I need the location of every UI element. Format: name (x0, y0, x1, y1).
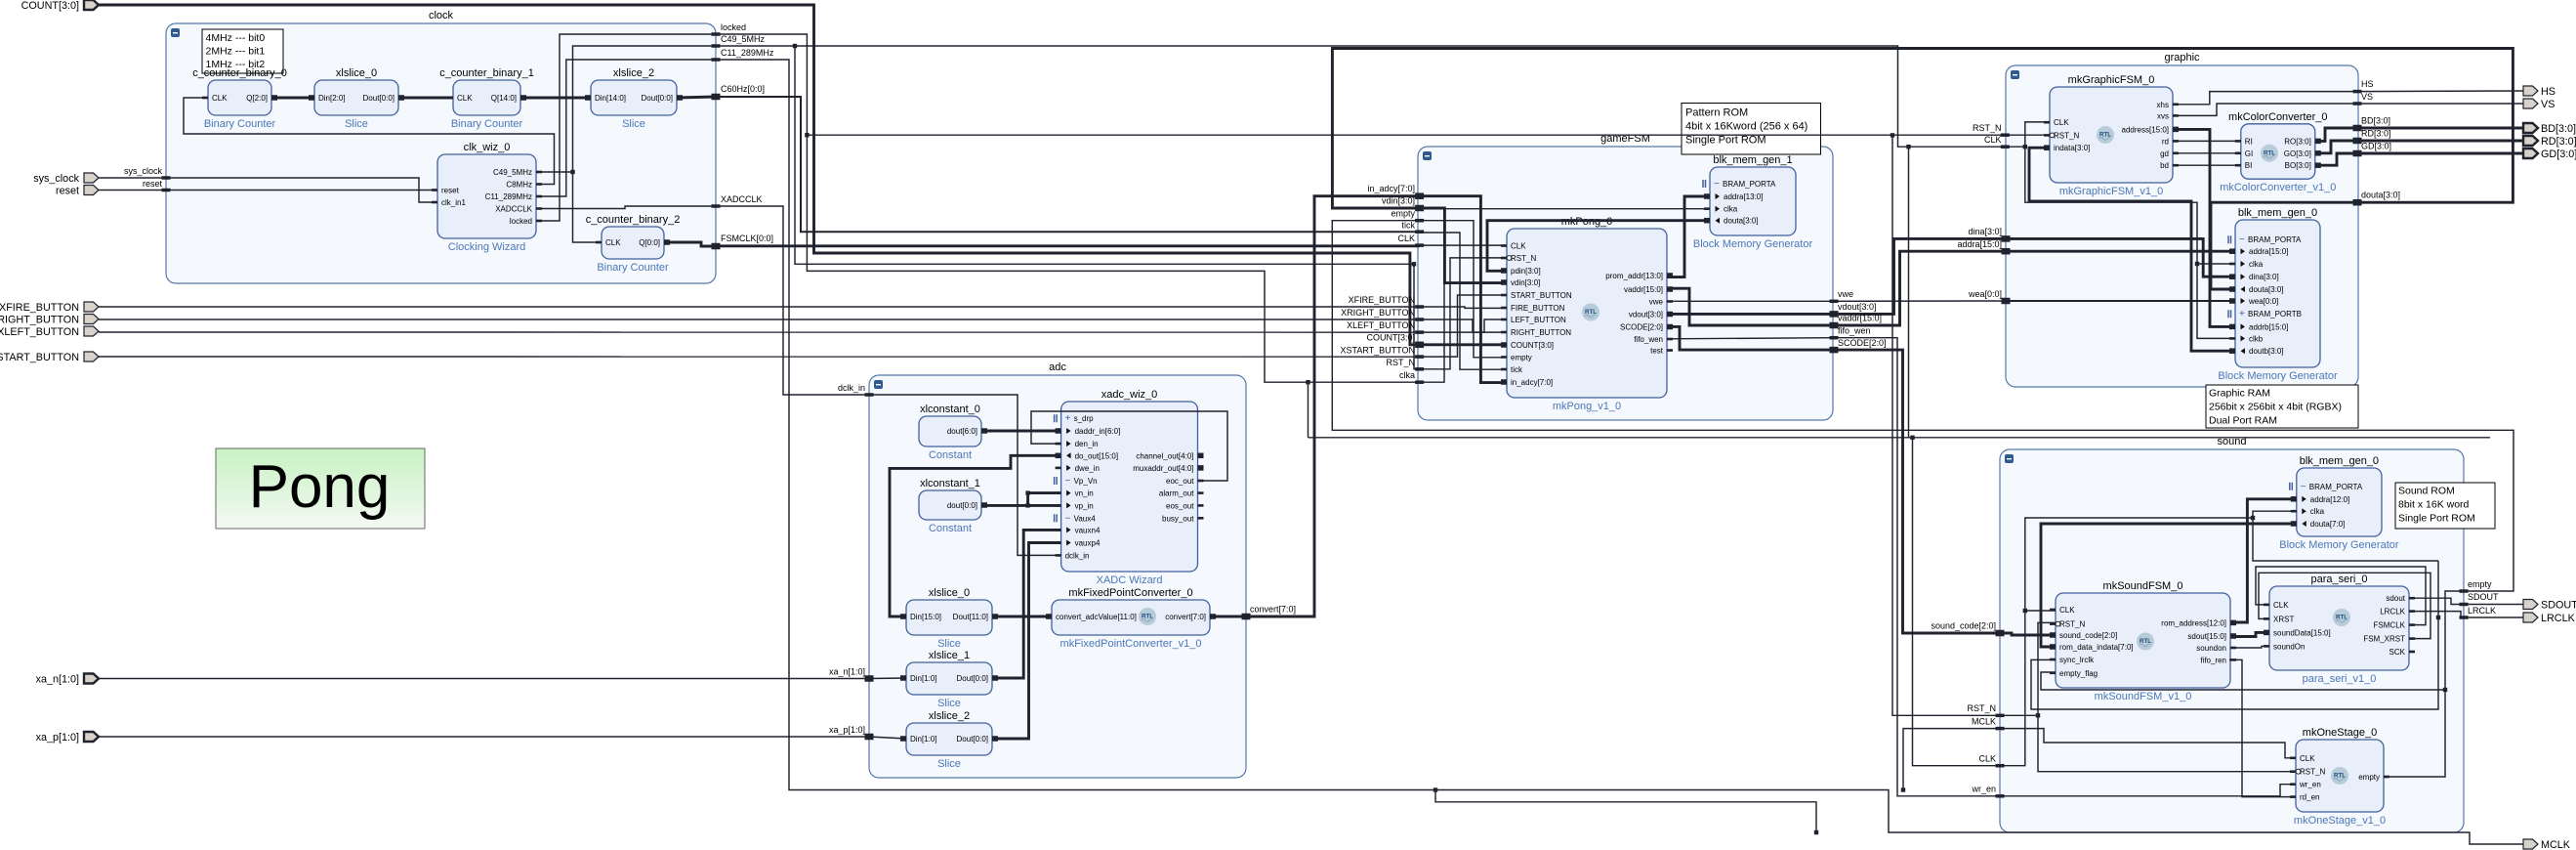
wire net const0 to daddr (981, 430, 1061, 433)
svg-text:XLEFT_BUTTON: XLEFT_BUTTON (0, 326, 79, 338)
svg-text:douta[3:0]: douta[3:0] (2361, 191, 2400, 200)
node RST_N pin snd (1967, 703, 2004, 717)
wire net soundon to soundOn (2230, 646, 2269, 648)
svg-text:vp_in: vp_in (1075, 501, 1094, 510)
svg-text:SCODE[2:0]: SCODE[2:0] (1620, 323, 1663, 332)
svg-text:RD[3:0]: RD[3:0] (2361, 129, 2391, 139)
svg-text:4MHz --- bit0: 4MHz --- bit0 (206, 32, 266, 44)
svg-text:SCODE[2:0]: SCODE[2:0] (1838, 338, 1887, 348)
svg-text:sync_lrclk: sync_lrclk (2059, 656, 2095, 664)
svg-text:vaddr[15:0]: vaddr[15:0] (1624, 285, 1663, 294)
svg-text:RST_N: RST_N (2300, 768, 2325, 777)
svg-text:RO[3:0]: RO[3:0] (2284, 137, 2311, 146)
wire net sound douta to rom_data (2041, 524, 2297, 647)
svg-text:fifo_wen: fifo_wen (1634, 335, 1663, 344)
wire net vdin inner (1420, 208, 1507, 283)
node C60Hz pin (712, 84, 766, 100)
node MCLK pin snd (1972, 716, 2005, 730)
svg-text:FIRE_BUTTON: FIRE_BUTTON (1511, 304, 1565, 313)
block blk_mem_gen_1 (1693, 154, 1813, 250)
svg-text:in_adcy[7:0]: in_adcy[7:0] (1367, 184, 1415, 193)
svg-text:test: test (1650, 347, 1664, 356)
svg-text:RST_N: RST_N (2059, 620, 2085, 629)
svg-text:s_drp: s_drp (1074, 414, 1095, 423)
wire net convert to in_adcy (1246, 196, 1420, 616)
wire net XLEFT inner (1420, 319, 1507, 332)
wire net CLK inner (1420, 244, 1507, 246)
port VS (2523, 99, 2555, 110)
wire net c1.Q to xlslice_2.Din (520, 97, 591, 100)
svg-text:Slice: Slice (937, 638, 961, 650)
wire net slice0 to conv (992, 616, 1052, 618)
wire net do_out loop (890, 455, 1061, 616)
block c_counter_binary_0 (192, 67, 287, 130)
node CLK pin g (1397, 234, 1424, 247)
svg-text:HS: HS (2361, 79, 2374, 89)
svg-text:bd: bd (2160, 161, 2169, 170)
svg-text:empty: empty (1511, 354, 1532, 362)
svg-text:dwe_in: dwe_in (1075, 464, 1100, 473)
node vdin pin (1382, 196, 1424, 212)
wire net C60Hz to tick (716, 97, 1420, 232)
svg-text:empty_flag: empty_flag (2059, 669, 2098, 678)
wire net FSMCLK to gameFSM CLK (716, 244, 1420, 247)
svg-text:mkFixedPointConverter_0: mkFixedPointConverter_0 (1068, 587, 1192, 599)
junction vn split (1025, 490, 1029, 494)
svg-text:RST_N: RST_N (1973, 123, 2002, 133)
wire net eoc loop (1031, 411, 1227, 481)
wire net SCODE to sound_code (1834, 350, 2000, 633)
wire net locked to sound RST_N (807, 135, 2000, 715)
node RST_N pin gr (1973, 123, 2010, 137)
svg-text:dclk_in: dclk_in (1065, 551, 1090, 560)
block blk_mem_gen_0 (2279, 455, 2399, 551)
port sys_clock (33, 173, 99, 185)
svg-text:vn_in: vn_in (1075, 489, 1094, 498)
port MCLK (2523, 839, 2571, 850)
note graphic-ram (2206, 385, 2358, 428)
node XADCCLK pin (712, 194, 763, 208)
svg-text:XFIRE_BUTTON: XFIRE_BUTTON (0, 302, 79, 314)
wire net vdout to dina (1834, 238, 2235, 314)
svg-text:SDOUT: SDOUT (2468, 592, 2499, 602)
junction locked split3 (1890, 133, 1894, 137)
hierarchy adc (869, 361, 1246, 778)
wire net RO to BD (2315, 128, 2523, 141)
svg-text:xhs: xhs (2157, 101, 2169, 109)
svg-text:in_adcy[7:0]: in_adcy[7:0] (1511, 378, 1553, 387)
svg-text:clk_in1: clk_in1 (441, 198, 466, 207)
svg-text:rom_address[12:0]: rom_address[12:0] (2161, 618, 2226, 627)
svg-text:CLK: CLK (2273, 601, 2289, 610)
wire net wea inner (2006, 300, 2235, 302)
wire net c0.Q to xlslice_0.Din (271, 97, 314, 100)
svg-text:prom_addr[13:0]: prom_addr[13:0] (1605, 272, 1663, 280)
port XSTART_BUTTON (0, 352, 99, 363)
svg-text:wea[0:0]: wea[0:0] (1968, 289, 2002, 299)
wire net C11_289MHz to edge (536, 60, 716, 196)
svg-text:CLK: CLK (2300, 754, 2315, 763)
svg-text:den_in: den_in (1075, 440, 1099, 448)
note sound-rom (2395, 483, 2495, 529)
svg-text:RST_N: RST_N (2054, 131, 2079, 140)
svg-text:RTL: RTL (2099, 132, 2111, 139)
svg-text:XLEFT_BUTTON: XLEFT_BUTTON (1347, 320, 1415, 330)
junction clk snd split (2023, 609, 2027, 613)
wire net tick inner (1420, 233, 1507, 369)
svg-text:RST_N: RST_N (1386, 358, 1415, 367)
svg-text:BO[3:0]: BO[3:0] (2285, 161, 2311, 170)
svg-text:douta[3:0]: douta[3:0] (2249, 285, 2284, 294)
svg-text:XSTART_BUTTON: XSTART_BUTTON (0, 352, 79, 363)
svg-text:Binary Counter: Binary Counter (204, 118, 276, 130)
junction FSMCLK ch3 (1910, 436, 1914, 440)
svg-text:Pong: Pong (249, 453, 391, 521)
block mkGraphicFSM_0 (2044, 74, 2179, 197)
svg-text:sys_clock: sys_clock (33, 173, 79, 185)
svg-text:blk_mem_gen_0: blk_mem_gen_0 (2238, 207, 2317, 219)
svg-text:alarm_out: alarm_out (1159, 489, 1194, 498)
wire net slice1 to vauxn (992, 530, 1061, 678)
wire net bram douta to pdin (1487, 221, 1710, 272)
wire net xa_p inner (869, 737, 906, 739)
block mkFixedPointConverter_0 (1046, 587, 1216, 650)
svg-text:rd: rd (2162, 137, 2169, 146)
svg-text:XSTART_BUTTON: XSTART_BUTTON (1340, 346, 1415, 356)
node addra pin (1957, 239, 2010, 254)
node wr_en pin snd (1971, 785, 2004, 798)
svg-text:graphic: graphic (2164, 52, 2200, 64)
svg-text:Block Memory Generator: Block Memory Generator (1693, 238, 1813, 250)
svg-text:xadc_wiz_0: xadc_wiz_0 (1101, 389, 1157, 401)
wire net wr_en inner (2000, 785, 2296, 796)
wire net LRCLK loop to sync (2031, 561, 2438, 709)
svg-text:sound_code[2:0]: sound_code[2:0] (1931, 621, 1996, 631)
svg-text:wr_en: wr_en (1971, 785, 1996, 794)
svg-text:reset: reset (143, 179, 163, 189)
svg-text:para_seri_v1_0: para_seri_v1_0 (2303, 673, 2377, 685)
svg-text:CLK: CLK (1511, 242, 1526, 251)
wire net C11_289MHz MCLK (716, 60, 2523, 844)
svg-text:convert_adcValue[11:0]: convert_adcValue[11:0] (1056, 613, 1137, 621)
wire net C49_5MHz to edge (536, 46, 716, 172)
wire net clk to clka clkb (2025, 147, 2235, 338)
svg-text:xlconstant_0: xlconstant_0 (920, 404, 980, 415)
svg-text:BRAM_PORTA: BRAM_PORTA (1723, 180, 1776, 189)
node xa_n pin (829, 667, 874, 682)
svg-text:tick: tick (1511, 365, 1523, 374)
block mkOneStage_0 (2290, 727, 2389, 827)
svg-text:SCK: SCK (2389, 648, 2406, 657)
svg-text:addrb[15:0]: addrb[15:0] (2249, 322, 2288, 331)
svg-text:RTL: RTL (1142, 614, 1153, 620)
wire net xa_n (99, 678, 869, 680)
svg-text:address[15:0]: address[15:0] (2122, 125, 2169, 134)
port COUNT[3:0] (21, 0, 99, 12)
svg-text:empty: empty (2468, 579, 2492, 589)
wire net LRCLK out (2409, 612, 2523, 617)
wire net MCLK sound inner (2000, 729, 2296, 758)
block mkPong_0 (1501, 216, 1673, 412)
node locked pin (712, 22, 747, 36)
svg-text:soundOn: soundOn (2273, 642, 2305, 651)
svg-text:convert[7:0]: convert[7:0] (1165, 613, 1206, 621)
svg-text:dina[3:0]: dina[3:0] (1968, 227, 2002, 236)
wire net vaddr inner (1667, 288, 1834, 325)
svg-text:RTL: RTL (1585, 309, 1597, 316)
svg-text:sys_clock: sys_clock (124, 166, 163, 176)
junction vp split (1025, 503, 1029, 507)
svg-text:xlslice_2: xlslice_2 (613, 67, 654, 79)
svg-text:CLK: CLK (457, 94, 473, 103)
wire net XFIRE inner (1420, 307, 1507, 308)
svg-text:Slice: Slice (937, 698, 961, 709)
wire net in_adcy inner (1420, 196, 1507, 383)
wire net prom_addr to addra (1667, 196, 1710, 277)
svg-text:Single Port ROM: Single Port ROM (2398, 512, 2475, 524)
node in_adcy pin (1367, 184, 1424, 199)
svg-text:Slice: Slice (937, 758, 961, 770)
svg-text:sound_code[2:0]: sound_code[2:0] (2059, 631, 2117, 640)
svg-text:FSMCLK: FSMCLK (2374, 621, 2406, 630)
junction clk g split2 (2195, 262, 2199, 266)
svg-text:Constant: Constant (929, 523, 972, 534)
svg-text:adc: adc (1049, 361, 1066, 373)
wire net C49 channel feed (1908, 147, 1910, 438)
junction MCLK split2 (1433, 787, 1437, 791)
svg-text:mkOneStage_0: mkOneStage_0 (2303, 727, 2377, 739)
svg-text:Dout[0:0]: Dout[0:0] (363, 94, 395, 103)
svg-text:blk_mem_gen_0: blk_mem_gen_0 (2300, 455, 2379, 467)
svg-text:COUNT[3:0]: COUNT[3:0] (21, 0, 79, 12)
block xlconstant_0 (919, 404, 987, 461)
block xlslice_0 (309, 67, 404, 130)
junction C49 split3 (1412, 262, 1416, 266)
svg-text:Sound ROM: Sound ROM (2398, 485, 2455, 496)
wire net xlslice_0.Dout to c1.CLK (398, 97, 453, 100)
wire net C49_5MHz to c2.CLK (573, 172, 602, 242)
wire net CLK sound inner (2000, 518, 2253, 766)
svg-text:+: + (2239, 309, 2245, 319)
node sys_clock pin (124, 166, 171, 180)
svg-text:mkGraphicFSM_v1_0: mkGraphicFSM_v1_0 (2059, 186, 2163, 197)
svg-text:GO[3:0]: GO[3:0] (2284, 149, 2311, 158)
wire net XSTART_BUTTON (99, 356, 1420, 358)
wire net XFIRE_BUTTON (99, 306, 1420, 308)
svg-text:mkGraphicFSM_0: mkGraphicFSM_0 (2068, 74, 2155, 86)
node LRCLK pin snd (2460, 616, 2469, 619)
wire net dclk inner (869, 395, 1061, 555)
svg-text:addra[12:0]: addra[12:0] (2310, 495, 2349, 504)
svg-text:soundon: soundon (2196, 644, 2226, 653)
svg-text:vauxn4: vauxn4 (1075, 526, 1101, 534)
svg-text:Dout[11:0]: Dout[11:0] (953, 613, 988, 621)
wire net COUNT inner (1420, 343, 1507, 346)
hierarchy gameFSM (1418, 133, 1833, 420)
svg-text:Dout[0:0]: Dout[0:0] (957, 735, 988, 744)
node HS pin (2353, 79, 2374, 93)
svg-text:sdout: sdout (2386, 594, 2405, 603)
wire net xhs to HS (2173, 91, 2523, 105)
svg-text:mkColorConverter_0: mkColorConverter_0 (2228, 111, 2327, 123)
svg-text:clka: clka (2249, 260, 2264, 269)
svg-text:Binary Counter: Binary Counter (451, 118, 523, 130)
svg-text:RIGHT_BUTTON: RIGHT_BUTTON (1511, 328, 1571, 337)
junction clk g split (2023, 145, 2027, 149)
svg-text:GD[3:0]: GD[3:0] (2361, 142, 2391, 151)
svg-text:Slice: Slice (622, 118, 645, 130)
wire net C49_5MHz to graphic CLK (795, 46, 2005, 147)
svg-text:addra[15:0]: addra[15:0] (2249, 247, 2288, 256)
wire net const1 to vp (981, 504, 1061, 507)
hierarchy sound (2000, 436, 2464, 832)
junction empty split (2443, 688, 2447, 692)
node dina pin (1968, 227, 2010, 242)
svg-text:vaddr[15:0]: vaddr[15:0] (1838, 314, 1882, 323)
svg-text:Dout[0:0]: Dout[0:0] (642, 94, 673, 103)
wire net stub 820 line (1435, 790, 1816, 833)
svg-text:−: − (2301, 482, 2306, 492)
wire net C60Hz out (677, 97, 716, 98)
wire net FSM_XRST to XRST (2259, 573, 2431, 638)
note pattern-rom (1682, 104, 1821, 155)
wire net RST_N graphic inner (2005, 134, 2050, 136)
note Pong title (216, 448, 425, 529)
svg-text:fifo_wen: fifo_wen (1838, 326, 1871, 336)
svg-text:dout[6:0]: dout[6:0] (947, 427, 977, 436)
node FSMCLK pin (712, 234, 774, 249)
wire net address to addrb (2173, 129, 2235, 326)
svg-text:Binary Counter: Binary Counter (597, 262, 669, 274)
svg-text:do_out[15:0]: do_out[15:0] (1075, 451, 1118, 460)
svg-text:mkPong_v1_0: mkPong_v1_0 (1553, 401, 1621, 412)
svg-text:eos_out: eos_out (1166, 501, 1194, 510)
wire net MCLK to sound (1903, 729, 2000, 790)
svg-text:CLK: CLK (2054, 118, 2069, 127)
wire net RST_N to onestage (2038, 715, 2296, 771)
hierarchy clock (166, 10, 716, 283)
node XFIRE pin (1349, 295, 1424, 309)
node CLK pin snd (1978, 754, 2004, 768)
svg-text:C11_289MHz: C11_289MHz (485, 192, 532, 201)
svg-text:BRAM_PORTB: BRAM_PORTB (2248, 310, 2302, 319)
junction MCLK split3 (1814, 830, 1818, 834)
svg-text:CLK: CLK (2059, 606, 2075, 615)
svg-text:addra[13:0]: addra[13:0] (1724, 192, 1763, 201)
wire net sys_clock to clk_in1 (100, 178, 438, 202)
wire net XRIGHT inner (1420, 319, 1507, 332)
wire net SCODE inner (1667, 326, 1834, 350)
wire net RST_N sound inner (2000, 622, 2056, 715)
svg-text:XADCCLK: XADCCLK (721, 194, 763, 204)
junction C49 split2 (793, 44, 797, 48)
wire net sound_code inner (2000, 633, 2056, 635)
svg-text:CLK: CLK (605, 238, 621, 247)
node SCODE out pin (1830, 338, 1887, 353)
wire net gd to GI (2173, 152, 2241, 154)
wire net xvs to VS (2173, 104, 2523, 115)
wire net vwe to wea (1834, 300, 2006, 302)
svg-text:MCLK: MCLK (1972, 716, 1996, 726)
svg-text:xvs: xvs (2157, 111, 2169, 120)
port HS (2523, 86, 2555, 98)
svg-text:xlslice_0: xlslice_0 (929, 587, 970, 599)
svg-text:xlconstant_1: xlconstant_1 (920, 478, 980, 489)
svg-text:+: + (1065, 413, 1071, 424)
svg-text:clka: clka (2310, 507, 2325, 516)
svg-text:rd_en: rd_en (2300, 793, 2319, 802)
port reset (56, 186, 99, 197)
svg-text:muxaddr_out[4:0]: muxaddr_out[4:0] (1133, 464, 1193, 473)
wire net locked branch graphic (1892, 134, 2005, 136)
wire net empty to empty_flag (2041, 672, 2445, 690)
block c_counter_binary_2 (586, 214, 681, 274)
svg-text:RD[3:0]: RD[3:0] (2541, 136, 2576, 148)
junction C49 chfeed (1906, 145, 1910, 149)
node RSTN pin g (1386, 358, 1424, 371)
wire net doutb to indata (2029, 148, 2235, 351)
wire net XADCCLK to adc (716, 206, 869, 395)
svg-text:BI: BI (2245, 161, 2253, 170)
node tick pin (1402, 221, 1425, 234)
node empty pin snd (2460, 579, 2493, 593)
wire net clka branch down (1308, 382, 1309, 438)
wire net rom_address to addra (2230, 499, 2297, 622)
svg-text:blk_mem_gen_1: blk_mem_gen_1 (1713, 154, 1792, 166)
wire net C49_5MHz to gameFSM RST_N (716, 46, 1420, 369)
svg-text:indata[3:0]: indata[3:0] (2054, 144, 2090, 152)
svg-text:Single Port ROM: Single Port ROM (1685, 134, 1766, 146)
svg-text:clk_wiz_0: clk_wiz_0 (464, 142, 511, 153)
svg-text:fifo_ren: fifo_ren (2200, 656, 2226, 664)
svg-text:BD[3:0]: BD[3:0] (2541, 123, 2576, 135)
svg-text:tick: tick (1402, 221, 1416, 231)
wire net CLK to soundFSM (2025, 610, 2056, 612)
node sound_code pin (1931, 621, 2004, 637)
svg-text:empty: empty (1391, 209, 1415, 219)
svg-text:LRCLK: LRCLK (2468, 606, 2496, 616)
wire net fifo_wen inner (1667, 338, 1834, 339)
node convert pin (1242, 605, 1297, 620)
wire net GO to RD (2315, 141, 2523, 153)
wire net fifo_wen to wr_en (1834, 338, 2000, 796)
wire net reset to reset (99, 190, 437, 191)
svg-text:XRST: XRST (2273, 615, 2294, 623)
block mkColorConverter_0 (2220, 111, 2336, 193)
svg-text:Clocking Wizard: Clocking Wizard (448, 241, 525, 253)
svg-text:vdout[3:0]: vdout[3:0] (1629, 311, 1663, 319)
svg-text:COUNT[3:0]: COUNT[3:0] (1366, 333, 1415, 343)
svg-text:channel_out[4:0]: channel_out[4:0] (1136, 451, 1193, 460)
svg-text:Slice: Slice (345, 118, 368, 130)
svg-text:C60Hz[0:0]: C60Hz[0:0] (721, 84, 765, 94)
wire net empty inner (1420, 221, 1507, 358)
svg-text:START_BUTTON: START_BUTTON (1511, 291, 1572, 300)
block clk_wiz_0 (432, 142, 542, 253)
node XSTART pin (1340, 346, 1424, 359)
wire net clka sound (2253, 511, 2438, 561)
wire net locked to edge (536, 34, 716, 221)
svg-text:−: − (1065, 476, 1071, 487)
svg-text:Din[2:0]: Din[2:0] (318, 94, 346, 103)
node CLK pin gr (1984, 135, 2010, 149)
svg-text:soundData[15:0]: soundData[15:0] (2273, 628, 2331, 637)
svg-text:8bit x 16K word: 8bit x 16K word (2398, 498, 2470, 510)
svg-text:Din[1:0]: Din[1:0] (910, 735, 937, 744)
svg-text:locked: locked (510, 217, 532, 226)
svg-text:XADCCLK: XADCCLK (495, 205, 532, 214)
svg-text:wea[0:0]: wea[0:0] (2248, 297, 2278, 306)
